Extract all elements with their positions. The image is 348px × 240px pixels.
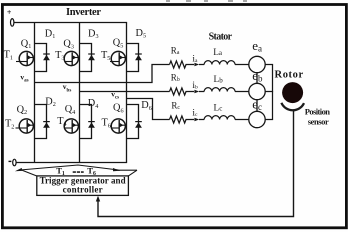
svg-text:ic: ic bbox=[192, 109, 198, 119]
svg-text:D2: D2 bbox=[45, 96, 56, 108]
svg-text:T1: T1 bbox=[4, 50, 13, 62]
svg-text:T3: T3 bbox=[55, 50, 64, 62]
svg-text:D3: D3 bbox=[88, 28, 99, 40]
svg-text:Rb: Rb bbox=[171, 72, 180, 83]
svg-text:Ra: Ra bbox=[171, 45, 180, 56]
svg-text:T6: T6 bbox=[102, 118, 111, 130]
svg-text:eb: eb bbox=[252, 68, 263, 84]
svg-text:ea: ea bbox=[252, 38, 262, 54]
svg-text:Inverter: Inverter bbox=[66, 7, 101, 18]
svg-text:Q2: Q2 bbox=[17, 104, 28, 116]
svg-text:vbs: vbs bbox=[63, 82, 72, 93]
svg-text:+: + bbox=[7, 8, 12, 17]
svg-text:vas: vas bbox=[20, 73, 28, 84]
svg-text:ia: ia bbox=[192, 54, 198, 64]
svg-text:Lc: Lc bbox=[214, 103, 223, 113]
svg-text:Rotor: Rotor bbox=[275, 69, 304, 80]
svg-text:sensor: sensor bbox=[308, 117, 329, 127]
svg-text:D5: D5 bbox=[136, 28, 147, 40]
svg-text:La: La bbox=[213, 48, 223, 58]
svg-text:Q4: Q4 bbox=[65, 104, 76, 116]
svg-text:Q6: Q6 bbox=[113, 103, 124, 115]
svg-text:Stator: Stator bbox=[209, 31, 233, 42]
svg-text:Lb: Lb bbox=[214, 75, 224, 85]
svg-text:D6: D6 bbox=[141, 100, 152, 112]
svg-text:T5: T5 bbox=[101, 50, 110, 62]
svg-text:Q5: Q5 bbox=[113, 38, 124, 50]
svg-text:D1: D1 bbox=[45, 28, 56, 40]
svg-text:Position: Position bbox=[305, 107, 331, 117]
svg-text:Q1: Q1 bbox=[21, 38, 32, 50]
svg-text:Q3: Q3 bbox=[63, 39, 74, 51]
svg-text:T2: T2 bbox=[5, 119, 14, 131]
svg-text:Rc: Rc bbox=[171, 100, 180, 111]
svg-text:controller: controller bbox=[63, 185, 103, 195]
svg-text:T1: T1 bbox=[56, 165, 65, 177]
svg-text:D4: D4 bbox=[88, 98, 99, 110]
svg-text:ib: ib bbox=[192, 81, 198, 91]
svg-text:T4: T4 bbox=[57, 116, 66, 128]
